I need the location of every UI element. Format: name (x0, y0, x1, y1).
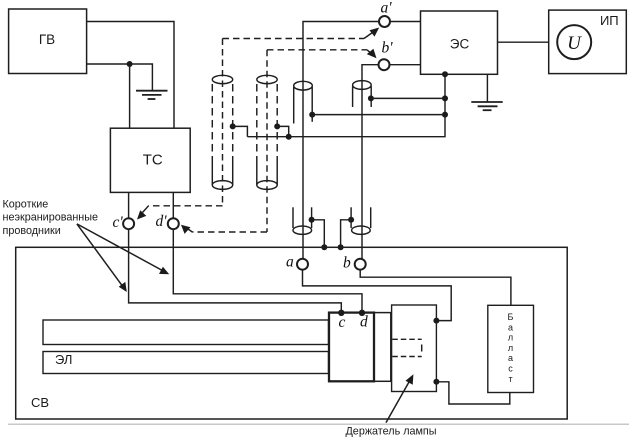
wire d' to lamp contact d (173, 229, 362, 312)
svg-text:d': d' (156, 213, 168, 230)
junction dot shield5 tap (309, 217, 315, 223)
dashed reference line to b' (267, 49, 377, 58)
svg-text:а: а (508, 322, 513, 332)
node d' (168, 218, 179, 229)
wire holder to Балласт bottom (436, 382, 509, 404)
junction dot bus-shield4 (442, 95, 448, 101)
svg-text:ТС: ТС (143, 152, 163, 169)
lamp holder block (392, 305, 437, 392)
svg-text:b: b (343, 255, 351, 272)
wire a to lamp holder (303, 270, 452, 321)
svg-text:СВ: СВ (31, 395, 49, 410)
junction dot shield3 tap (309, 112, 315, 118)
svg-text:ЭЛ: ЭЛ (55, 352, 72, 367)
node c' (123, 218, 134, 229)
label Короткие неэкранированные проводники (3, 199, 99, 238)
svg-text:с: с (508, 364, 513, 374)
block ГВ (9, 9, 87, 74)
svg-text:л: л (508, 333, 513, 343)
contact dot d (359, 310, 365, 316)
svg-text:неэкранированные: неэкранированные (3, 212, 99, 224)
svg-text:Б: Б (508, 312, 514, 322)
wire ЭС bottom bus (247, 74, 445, 136)
block Балласт (488, 305, 534, 392)
lamp cap narrow block (374, 313, 391, 382)
wire shield6 to chamber (341, 220, 352, 248)
shield cylinder 5 (293, 207, 312, 234)
wire a' to ЭС (390, 21, 421, 23)
wire a' down to node a (303, 22, 379, 259)
pointer arrow to wire d' (77, 224, 169, 274)
svg-text:c': c' (113, 214, 124, 231)
node a' (379, 16, 390, 27)
junction dot shield1 tap (230, 123, 236, 129)
node b (355, 259, 366, 270)
junction dot chamber-shield5 (321, 244, 327, 250)
svg-text:ИП: ИП (600, 13, 619, 28)
wire shield4 to bus (371, 97, 445, 99)
wire b' down to node b (362, 65, 379, 259)
junction dot ЭС bottom (442, 71, 448, 77)
junction dot bus-shield3 (442, 112, 448, 118)
ground ЭС (471, 74, 502, 110)
lamp tube lower electrode bar ЭЛ (43, 352, 329, 374)
svg-text:л: л (508, 343, 513, 353)
shield cylinder 2 (dashed) (257, 75, 277, 189)
block ИП (549, 10, 627, 74)
junction dot holder lower (433, 379, 439, 385)
svg-text:d: d (360, 313, 368, 330)
dashed reference line to a' (223, 28, 380, 39)
svg-text:c: c (339, 314, 346, 331)
wire shield5 to chamber (312, 220, 325, 248)
svg-text:a: a (286, 254, 294, 271)
block ЭС (421, 11, 498, 74)
wire junction to ТС (129, 64, 131, 128)
junction dot (127, 61, 133, 67)
wire ГВ top to ТС (87, 22, 174, 129)
faint rule at bottom (8, 423, 629, 425)
pointer arrow to lamp holder (386, 374, 413, 422)
pointer arrow to wire c' (77, 224, 127, 292)
wire b' to ЭС (390, 64, 421, 66)
junction dot shield6 tap (348, 217, 354, 223)
lamp tube upper electrode bar (43, 320, 329, 345)
dashed lead through shield 2 (266, 50, 268, 232)
shield cylinder 6 (351, 207, 371, 234)
junction dot shield2 tap (274, 123, 280, 129)
wire shield3 to bus (312, 114, 445, 116)
shield cylinder 1 (dashed) (212, 75, 232, 189)
dashed reference line to c' (137, 206, 223, 220)
wire c' to lamp contact c (129, 229, 342, 312)
junction dot holder-a (433, 318, 439, 324)
svg-text:ЭС: ЭС (450, 36, 470, 51)
svg-text:Короткие: Короткие (3, 199, 49, 211)
dashed contact inside holder (392, 339, 421, 356)
wire b to Балласт (360, 270, 511, 306)
wire shield1 to bus (233, 126, 248, 136)
wire ЭС to ИП (498, 41, 549, 43)
svg-text:а: а (508, 353, 513, 363)
junction dot bus-shield2 (286, 134, 292, 140)
junction dot chamber-shield6 (338, 244, 344, 250)
dashed lead through shield 1 (222, 39, 224, 206)
svg-text:т: т (508, 374, 512, 384)
node b' (379, 59, 390, 70)
svg-text:проводники: проводники (3, 225, 61, 237)
contact dot c (338, 310, 344, 316)
svg-text:ГВ: ГВ (39, 32, 55, 47)
dashed reference line to d' (181, 225, 267, 234)
lamp end block (thick) (329, 313, 374, 382)
wire ТС to node c' (128, 192, 130, 218)
shield cylinder 3 (294, 81, 313, 123)
svg-text:Держатель лампы: Держатель лампы (346, 426, 437, 438)
wire ТС to node d' (172, 192, 174, 218)
wire ГВ bottom (87, 64, 153, 91)
svg-text:U: U (567, 33, 582, 54)
block ТС (110, 128, 190, 192)
junction dot shield4 tap (368, 95, 374, 101)
node a (297, 259, 308, 270)
shield cylinder 4 (353, 81, 372, 107)
chamber СВ (16, 247, 568, 419)
voltmeter U (557, 25, 591, 59)
svg-text:a': a' (381, 0, 393, 17)
svg-text:b': b' (382, 40, 394, 57)
ground GV (136, 91, 168, 99)
wire shield2 to bus (277, 126, 289, 136)
